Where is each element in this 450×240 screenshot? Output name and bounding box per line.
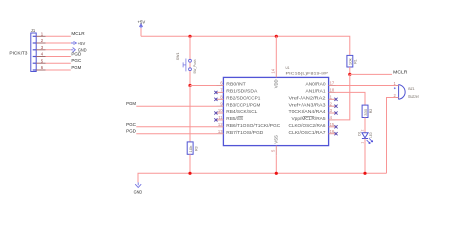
- wire node to pin6: [190, 85, 217, 87]
- svg-text:2: 2: [360, 129, 364, 131]
- svg-text:R3: R3: [193, 146, 198, 151]
- pin 18 AN1/RA1: [306, 88, 336, 94]
- power +5V at J1 pin2: [71, 41, 86, 46]
- svg-text:Vref+/AN3/RA3: Vref+/AN3/RA3: [289, 102, 327, 107]
- svg-text:AN0/RA0: AN0/RA0: [306, 82, 327, 87]
- power +5V top: [138, 20, 147, 29]
- junction rail/VSS: [275, 172, 278, 175]
- wire ground rail: [138, 173, 387, 182]
- svg-text:CLKO/OSC2/RA6: CLKO/OSC2/RA6: [289, 123, 327, 128]
- junction rail/SW1: [188, 35, 191, 38]
- pin 2 Vref+/AN3/RA3: [289, 101, 338, 107]
- svg-text:J1: J1: [31, 28, 36, 33]
- connector J1 body: [31, 33, 36, 72]
- wire J1 pin5: [46, 62, 71, 64]
- svg-text:D1: D1: [357, 131, 362, 136]
- junction SW1/RB0 node: [188, 84, 191, 87]
- J1 pin 3: [36, 45, 45, 50]
- pin 9 RB3/CCP1/PGM: [217, 101, 261, 107]
- svg-text:BZ1: BZ1: [408, 86, 415, 91]
- power GND bottom: [134, 182, 143, 194]
- J1 pin 5: [36, 58, 45, 63]
- wire buzzer pin2 to ground rail: [387, 98, 396, 174]
- svg-text:1: 1: [360, 142, 364, 144]
- wire node to MCLR label: [350, 73, 392, 75]
- J1 pin 1: [36, 31, 45, 36]
- junction rail/VDD: [275, 35, 278, 38]
- wire J1 pin4: [46, 56, 71, 58]
- pin 6 RB0/INT: [217, 81, 247, 87]
- pin 11 RB5/SS: [214, 115, 243, 121]
- svg-text:MCLR: MCLR: [393, 69, 408, 74]
- buzzer BZ1: [394, 81, 406, 100]
- J1 pin 4: [36, 52, 45, 57]
- svg-text:PGD: PGD: [71, 51, 82, 56]
- resistor R3: [187, 142, 193, 154]
- wire LED to ground rail: [364, 139, 366, 174]
- J1 pin 2: [36, 38, 45, 43]
- wire SW1 branch: [189, 36, 191, 85]
- wire J1 pin3: [46, 49, 71, 51]
- IC U1 body: [223, 77, 328, 145]
- svg-text:PGM: PGM: [71, 65, 81, 70]
- svg-text:RB6/T1OSO/T1CKI/PGC: RB6/T1OSO/T1CKI/PGC: [226, 123, 280, 128]
- svg-text:SW_Push: SW_Push: [193, 60, 197, 74]
- svg-text:17: 17: [330, 81, 335, 86]
- svg-text:VDD: VDD: [274, 79, 279, 88]
- svg-text:VSS: VSS: [274, 135, 279, 144]
- resistor R2: [362, 105, 368, 117]
- wire PGM to pin9: [136, 105, 216, 107]
- svg-text:16: 16: [330, 129, 335, 134]
- svg-text:13: 13: [218, 129, 223, 134]
- svg-text:PGD: PGD: [126, 129, 137, 134]
- svg-text:14: 14: [271, 68, 276, 73]
- J1 pin 6: [36, 65, 45, 70]
- pin 7 RB1/SDI/SDA: [214, 88, 257, 94]
- pin 3 T0CKI/AN4/RA4: [289, 108, 338, 114]
- resistor R1: [347, 55, 353, 67]
- wire VSS: [275, 155, 277, 173]
- pin 14 VDD: [271, 68, 279, 88]
- svg-text:T0CKI/AN4/RA4: T0CKI/AN4/RA4: [289, 109, 327, 114]
- svg-text:RB7/T1OSI/PGD: RB7/T1OSI/PGD: [226, 130, 263, 135]
- pin 17 AN0/RA0: [306, 81, 336, 87]
- svg-text:LED: LED: [369, 132, 373, 138]
- svg-text:RB1/SDI/SDA: RB1/SDI/SDA: [226, 89, 257, 94]
- svg-text:R1: R1: [352, 59, 357, 64]
- svg-text:RB4/SCK/SCL: RB4/SCK/SCL: [226, 109, 258, 114]
- svg-text:18: 18: [330, 88, 335, 93]
- wire VDD: [275, 36, 277, 70]
- pin 8 RB2/SDO/CCP1: [214, 95, 261, 101]
- LED D1: [360, 129, 372, 143]
- pin 16 CLKI/OSC1/RA7: [289, 129, 338, 135]
- wire PGD to pin13: [136, 133, 216, 135]
- power GND at J1 pin3: [71, 47, 87, 52]
- svg-text:Vpp/MCLR/RA5: Vpp/MCLR/RA5: [292, 116, 327, 121]
- wire R2 to LED: [364, 118, 366, 133]
- svg-text:RB5/SS: RB5/SS: [226, 116, 243, 121]
- wire pin18 to R2: [336, 92, 366, 105]
- pin 10 RB4/SCK/SCL: [214, 108, 258, 114]
- pin 12 RB6/T1OSO/T1CKI/PGC: [217, 122, 281, 128]
- svg-text:Buzzer: Buzzer: [408, 94, 419, 99]
- svg-text:CLKI/OSC1/RA7: CLKI/OSC1/RA7: [289, 130, 327, 135]
- wire J1 pin1: [46, 35, 71, 37]
- svg-text:10: 10: [218, 108, 223, 113]
- svg-text:12: 12: [218, 122, 223, 127]
- wire J1 pin6: [46, 69, 71, 71]
- wire node to R3: [189, 86, 191, 142]
- svg-text:Vref-/AN2/RA2: Vref-/AN2/RA2: [289, 96, 327, 101]
- switch SW1: [183, 59, 191, 72]
- svg-text:10k: 10k: [189, 145, 193, 152]
- pin 13 RB7/T1OSI/PGD: [217, 129, 264, 135]
- svg-text:PGM: PGM: [126, 101, 136, 106]
- svg-text:GND: GND: [134, 189, 143, 194]
- wire node down to pin4: [336, 74, 350, 120]
- junction rail/R3: [188, 172, 191, 175]
- svg-text:U1: U1: [286, 65, 291, 70]
- wire R3 to ground rail: [189, 154, 191, 173]
- wire J1 pin2: [46, 42, 71, 44]
- svg-text:SW1: SW1: [175, 52, 180, 60]
- svg-text:AN1/RA1: AN1/RA1: [306, 89, 327, 94]
- svg-text:PGC: PGC: [126, 122, 137, 127]
- svg-text:+5V: +5V: [138, 20, 147, 25]
- wire pin17 to buzzer pin1: [336, 85, 396, 87]
- svg-text:PICKIT3: PICKIT3: [9, 50, 28, 55]
- pin 15 CLKO/OSC2/RA6: [289, 122, 338, 128]
- svg-text:RB0/INT: RB0/INT: [226, 82, 246, 87]
- svg-text:MCLR: MCLR: [71, 31, 85, 36]
- svg-text:RB2/SDO/CCP1: RB2/SDO/CCP1: [226, 96, 261, 101]
- junction rail/LED: [363, 172, 366, 175]
- svg-text:R2: R2: [368, 108, 373, 113]
- svg-text:+5V: +5V: [78, 41, 86, 46]
- pin 4 Vpp/MCLR/RA5: [292, 115, 336, 121]
- svg-text:15: 15: [330, 122, 335, 127]
- pin 5 VSS: [271, 135, 279, 155]
- wire top rail: [141, 36, 350, 55]
- svg-text:PIC16(L)F819-I/P: PIC16(L)F819-I/P: [286, 71, 329, 76]
- wire +5V stem: [140, 28, 142, 36]
- svg-text:11: 11: [218, 115, 223, 120]
- junction MCLR node: [348, 73, 351, 76]
- svg-text:RB3/CCP1/PGM: RB3/CCP1/PGM: [226, 102, 261, 107]
- wire PGC to pin12: [136, 126, 216, 128]
- svg-text:PGC: PGC: [71, 58, 82, 63]
- wire R1 to junction: [349, 67, 351, 74]
- pin 1 Vref-/AN2/RA2: [289, 95, 338, 101]
